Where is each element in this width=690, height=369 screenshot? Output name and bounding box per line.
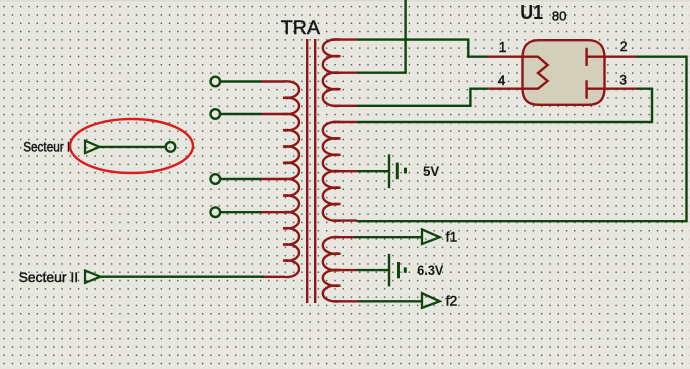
transformer TRA secondary winding S3 (6.3V) xyxy=(323,237,341,302)
transformer TRA secondary S3 tap pins xyxy=(333,237,358,301)
battery BT2 6.3V xyxy=(388,254,390,287)
wire pin 2 to S2 bottom tap xyxy=(357,57,687,222)
pin 4 stub xyxy=(488,87,523,89)
tube U1 filament (pins 1-4) xyxy=(523,57,548,89)
svg-text:1: 1 xyxy=(499,40,507,56)
wire centre tap up off-sheet xyxy=(357,0,406,73)
tube U1 envelope xyxy=(523,40,605,105)
highlight ellipse around Secteur I pin xyxy=(70,119,193,173)
wire net HT-top to pin 1 xyxy=(357,40,488,57)
wire net HT-bottom to pin 4 xyxy=(357,89,488,106)
pin 3 stub xyxy=(604,87,637,89)
svg-text:80: 80 xyxy=(552,8,566,23)
transformer TRA primary winding xyxy=(283,81,299,277)
svg-text:Secteur II: Secteur II xyxy=(19,269,79,285)
primary terminal pin circle 3 xyxy=(211,174,221,184)
transformer TRA secondary S2 tap pins xyxy=(333,122,357,221)
Secteur I pin circle xyxy=(166,142,176,152)
terminal Secteur I (input arrow) xyxy=(85,141,100,153)
wire primary tap 3 xyxy=(221,178,262,180)
transformer TRA secondary S1 tap pins xyxy=(333,40,357,106)
transformer TRA secondary winding S2 (5V) xyxy=(323,122,341,221)
svg-text:f1: f1 xyxy=(446,229,458,245)
transformer TRA secondary winding S1 (HT) xyxy=(323,39,341,106)
transformer TRA primary tap pins xyxy=(261,82,284,277)
battery BT1 5V xyxy=(388,154,390,188)
primary terminal pin circle 2 xyxy=(211,109,221,119)
svg-text:U1: U1 xyxy=(520,2,543,24)
svg-text:4: 4 xyxy=(498,72,506,88)
terminal f1 (output arrow) xyxy=(422,229,440,244)
transformer TRA core xyxy=(307,39,315,303)
wire S3 centre tap to 6.3V battery xyxy=(357,269,389,271)
svg-text:Secteur I: Secteur I xyxy=(23,138,70,154)
svg-text:5V: 5V xyxy=(423,163,440,179)
wire S2 centre tap to 5V battery xyxy=(357,170,389,172)
pin 2 stub xyxy=(604,56,636,58)
wire Secteur I xyxy=(100,146,166,148)
svg-text:f2: f2 xyxy=(446,293,458,309)
wire Secteur II to primary bottom tap xyxy=(101,276,265,278)
wire primary tap 1 xyxy=(221,80,262,82)
wire primary tap 2 xyxy=(221,113,262,115)
terminal f2 (output arrow) xyxy=(422,293,440,308)
svg-text:2: 2 xyxy=(620,38,628,54)
svg-text:3: 3 xyxy=(619,71,627,87)
wire S3 top tap to f1 xyxy=(354,236,422,238)
tube U1 anode plate pin 2 xyxy=(587,48,605,66)
wire pin 3 to S2 top tap xyxy=(357,89,652,122)
primary terminal pin circle 4 xyxy=(211,207,221,217)
terminal Secteur II (input arrow) xyxy=(85,271,101,283)
svg-text:TRA: TRA xyxy=(281,18,321,39)
pin 1 stub xyxy=(488,56,523,58)
primary terminal pin circle 1 xyxy=(211,77,221,87)
tube U1 anode plate pin 3 xyxy=(587,80,605,99)
svg-text:6.3V: 6.3V xyxy=(417,262,444,278)
wire primary tap 4 xyxy=(221,211,262,213)
wire S3 bottom tap to f2 xyxy=(358,300,422,302)
